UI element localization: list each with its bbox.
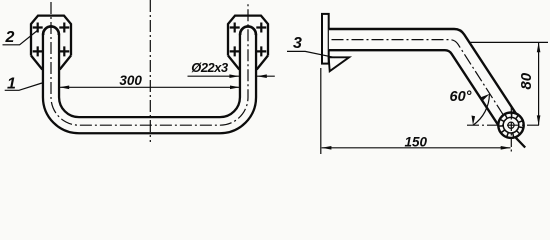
tube 1 U-handle outline (fat black + white core) <box>51 35 248 126</box>
tube 3 bent arm white body <box>329 29 521 132</box>
tube 1 centerline dash-dot <box>51 2 248 125</box>
svg-text:3: 3 <box>293 35 302 52</box>
weld gusset right plate right <box>257 56 268 70</box>
dimension 80 arrow up <box>537 42 541 52</box>
svg-text:80: 80 <box>518 72 535 89</box>
weld gusset left plate right <box>60 56 71 70</box>
svg-text:60°: 60° <box>450 89 472 105</box>
label 3 leader <box>287 51 335 57</box>
tube 1 end cap arc left <box>43 26 59 35</box>
figure vertical center mark <box>149 0 151 142</box>
dimension 300 arrow left <box>59 86 69 90</box>
tube end tail segment <box>515 137 525 147</box>
weld gusset right plate left <box>228 56 239 70</box>
label 1 leader <box>5 83 42 90</box>
dimension 300 line <box>59 86 239 88</box>
dimension 80 extension line <box>469 41 548 43</box>
svg-text:150: 150 <box>405 134 428 149</box>
centerline vertical through end circle / 150 extension <box>510 106 512 153</box>
tube 3 outer wall <box>329 29 521 121</box>
plate 2 right (front view octagon) <box>228 16 268 56</box>
gusset tab under tube 3 <box>329 57 349 71</box>
dimension 150 arrow left <box>322 146 332 150</box>
svg-text:Ø22x3: Ø22x3 <box>191 60 228 75</box>
dimension 60 degree arrow at horizontal end <box>472 116 476 126</box>
dimension 150 extension line left <box>320 68 322 154</box>
dimension dia 22x3 leader line and arrows <box>188 75 275 77</box>
centerline horizontal through end circle <box>467 124 542 126</box>
tube 3 centerline dash-dot <box>332 40 510 126</box>
dimension 60 degree arrow at axis end <box>481 94 489 100</box>
end circle cross-section <box>498 113 523 138</box>
tube 1 end cap arc right <box>240 26 256 35</box>
svg-text:2: 2 <box>5 29 15 46</box>
plate 2 left (front view octagon) <box>31 16 71 56</box>
svg-text:300: 300 <box>119 73 142 88</box>
dimension 300 arrow right <box>230 86 240 90</box>
plate 3 side view <box>322 14 329 64</box>
dimension 80 line <box>538 42 540 125</box>
dimension 60 degree arc <box>473 94 489 125</box>
dimension 150 arrow right <box>501 146 511 150</box>
label 2 leader <box>3 30 39 45</box>
dimension 150 line <box>322 147 511 149</box>
svg-text:1: 1 <box>7 76 16 93</box>
screw cross marks right plate <box>230 23 267 57</box>
tube 3 inner wall <box>329 50 503 132</box>
dimension 80 arrow down <box>537 115 541 125</box>
weld gusset left plate left <box>31 56 42 70</box>
screw cross marks left plate <box>33 23 70 57</box>
